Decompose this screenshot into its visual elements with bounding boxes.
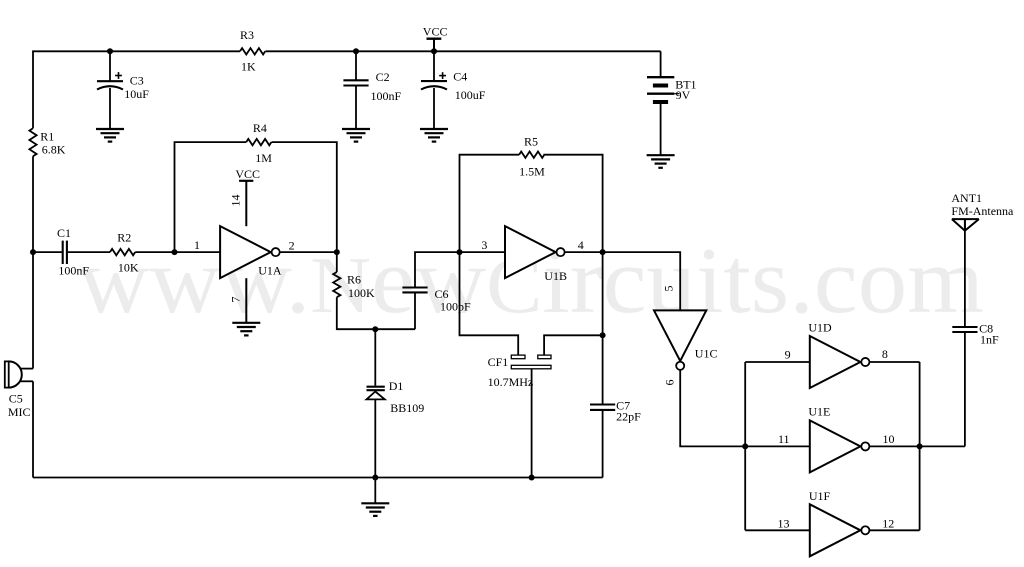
ground [342, 129, 370, 142]
wire [919, 362, 921, 530]
pin 4 [578, 238, 584, 252]
junction CF1 stem [529, 475, 535, 481]
wire [544, 155, 603, 252]
svg-text:10.7MHz: 10.7MHz [488, 375, 534, 389]
svg-text:R6: R6 [347, 273, 361, 287]
wire [660, 51, 662, 77]
vcc rail [423, 25, 448, 52]
svg-text:R5: R5 [524, 135, 538, 149]
pin 7 [229, 278, 247, 323]
ground [647, 155, 675, 168]
wire [32, 381, 34, 477]
junction U1E input [742, 443, 748, 449]
svg-text:100nF: 100nF [371, 89, 402, 103]
wire [460, 252, 519, 355]
wire [135, 251, 220, 253]
resistor R2 [110, 230, 139, 274]
junction C1/mic [30, 249, 36, 255]
wire [355, 86, 357, 130]
svg-text:R3: R3 [240, 28, 254, 42]
wire [272, 142, 337, 252]
svg-text:R2: R2 [117, 230, 131, 244]
wire [280, 251, 337, 253]
vcc U1A [235, 167, 260, 181]
pin 1 [194, 238, 200, 252]
svg-text:U1E: U1E [808, 405, 830, 419]
svg-text:1: 1 [194, 238, 200, 252]
node 1 [172, 249, 178, 255]
wire [869, 445, 919, 447]
wire [374, 399, 376, 477]
capacitor C7 [590, 399, 641, 424]
wire [433, 51, 435, 81]
svg-text:13: 13 [778, 517, 790, 531]
pin 2 [289, 238, 295, 252]
svg-text:22pF: 22pF [616, 410, 641, 424]
resistor R1 [29, 128, 65, 156]
svg-text:14: 14 [229, 195, 243, 207]
svg-text:10K: 10K [118, 261, 139, 275]
svg-text:CF1: CF1 [488, 355, 509, 369]
wire [602, 252, 604, 404]
resistor R4 [246, 121, 272, 165]
svg-text:MIC: MIC [8, 405, 31, 419]
pin 12 [882, 517, 894, 531]
svg-text:C5: C5 [9, 392, 23, 406]
svg-text:D1: D1 [389, 379, 404, 393]
capacitor C4 [421, 69, 486, 102]
junction VCC stub [431, 48, 437, 54]
ceramic filter CF1 [488, 355, 551, 389]
op-amp U1F [809, 489, 869, 556]
svg-text:5: 5 [662, 286, 676, 292]
wire [433, 88, 435, 129]
wire [20, 380, 33, 382]
svg-text:6.8K: 6.8K [42, 143, 66, 157]
wire [869, 529, 919, 531]
wire [869, 361, 919, 363]
wire [374, 329, 376, 385]
wire [33, 477, 603, 479]
wire [415, 252, 460, 287]
pin 11 [778, 432, 790, 446]
wire [109, 51, 111, 81]
svg-text:1nF: 1nF [980, 333, 999, 347]
capacitor C8 [952, 322, 999, 347]
svg-text:100uF: 100uF [455, 88, 486, 102]
wire [964, 332, 966, 446]
svg-text:7: 7 [229, 297, 243, 303]
op-amp U1D [808, 321, 869, 389]
ground [96, 129, 124, 142]
wire [964, 219, 966, 327]
capacitor C1 [57, 226, 89, 278]
op-amp U1C [654, 310, 717, 369]
wire [67, 251, 110, 253]
wire [565, 251, 603, 253]
svg-text:12: 12 [882, 517, 894, 531]
svg-text:R4: R4 [253, 121, 267, 135]
wire [745, 361, 810, 363]
junction D1 ground [372, 475, 378, 481]
wire [20, 368, 33, 370]
svg-text:1K: 1K [241, 59, 256, 73]
pin 6 [663, 380, 677, 386]
svg-text:4: 4 [578, 238, 584, 252]
junction C2/VCC rail [353, 48, 359, 54]
svg-text:FM-Antenna: FM-Antenna [951, 204, 1014, 218]
wire [109, 88, 111, 129]
svg-text:2: 2 [289, 238, 295, 252]
svg-text:9: 9 [785, 348, 791, 362]
resistor R6 [333, 272, 375, 300]
pin 10 [883, 432, 895, 446]
svg-text:BB109: BB109 [390, 401, 424, 415]
junction U1E output [917, 443, 923, 449]
op-amp U1A [220, 226, 282, 278]
svg-text:C3: C3 [130, 73, 144, 87]
wire [602, 410, 604, 478]
wire [355, 51, 357, 80]
wire [603, 252, 681, 310]
wire [460, 251, 506, 253]
svg-text:1M: 1M [255, 151, 272, 165]
op-amp U1B [505, 226, 567, 283]
pin 14 [229, 181, 247, 226]
svg-text:10uF: 10uF [124, 87, 149, 101]
wire [266, 50, 661, 52]
svg-text:1.5M: 1.5M [519, 165, 545, 179]
pin 3 [481, 238, 487, 252]
svg-text:U1A: U1A [258, 264, 282, 278]
svg-text:100K: 100K [348, 286, 375, 300]
svg-text:C2: C2 [376, 70, 390, 84]
ground [361, 478, 389, 516]
svg-text:U1D: U1D [808, 321, 832, 335]
wire [336, 252, 338, 272]
microphone C5 [5, 361, 31, 419]
varactor diode D1 [367, 379, 425, 415]
svg-text:100nF: 100nF [58, 264, 89, 278]
svg-text:6: 6 [663, 380, 677, 386]
pin 9 [785, 348, 791, 362]
junction CF1 right [600, 332, 606, 338]
svg-text:U1B: U1B [544, 269, 567, 283]
svg-text:9V: 9V [676, 88, 691, 102]
svg-text:10: 10 [883, 432, 895, 446]
capacitor C6 [402, 287, 471, 314]
svg-text:100pF: 100pF [440, 300, 471, 314]
svg-text:8: 8 [882, 347, 888, 361]
wire [32, 156, 34, 368]
wire [175, 142, 247, 252]
wire [745, 529, 810, 531]
svg-text:U1C: U1C [695, 347, 718, 361]
capacitor C3 [97, 72, 149, 101]
antenna ANT1 [951, 191, 1014, 231]
resistor R5 [519, 135, 545, 179]
node 3 [457, 249, 463, 255]
wire [744, 362, 746, 530]
ground [232, 323, 260, 336]
wire [33, 251, 63, 253]
svg-text:C4: C4 [453, 69, 467, 83]
node 2 [334, 249, 340, 255]
pin 8 [882, 347, 888, 361]
wire [745, 445, 810, 447]
pin 13 [778, 517, 790, 531]
svg-text:U1F: U1F [809, 489, 831, 503]
wire [337, 297, 415, 329]
wire [544, 335, 603, 355]
resistor R3 [240, 28, 265, 73]
node 4 [600, 249, 606, 255]
junction C3/VCC rail [107, 48, 113, 54]
battery BT1 [647, 77, 697, 102]
wire [680, 370, 745, 447]
wire [33, 51, 240, 128]
junction D1 [372, 326, 378, 332]
svg-text:C1: C1 [57, 226, 71, 240]
ground [420, 129, 448, 142]
capacitor C2 [343, 70, 401, 103]
wire [460, 155, 520, 252]
wire [660, 104, 662, 155]
op-amp U1E [808, 405, 869, 473]
wire [531, 369, 533, 478]
wire [414, 292, 416, 329]
wire [920, 445, 965, 447]
pin 5 [662, 286, 676, 292]
svg-text:R1: R1 [40, 129, 54, 143]
svg-text:11: 11 [778, 432, 790, 446]
svg-text:VCC: VCC [423, 25, 448, 39]
svg-text:3: 3 [481, 238, 487, 252]
svg-text:VCC: VCC [235, 167, 260, 181]
